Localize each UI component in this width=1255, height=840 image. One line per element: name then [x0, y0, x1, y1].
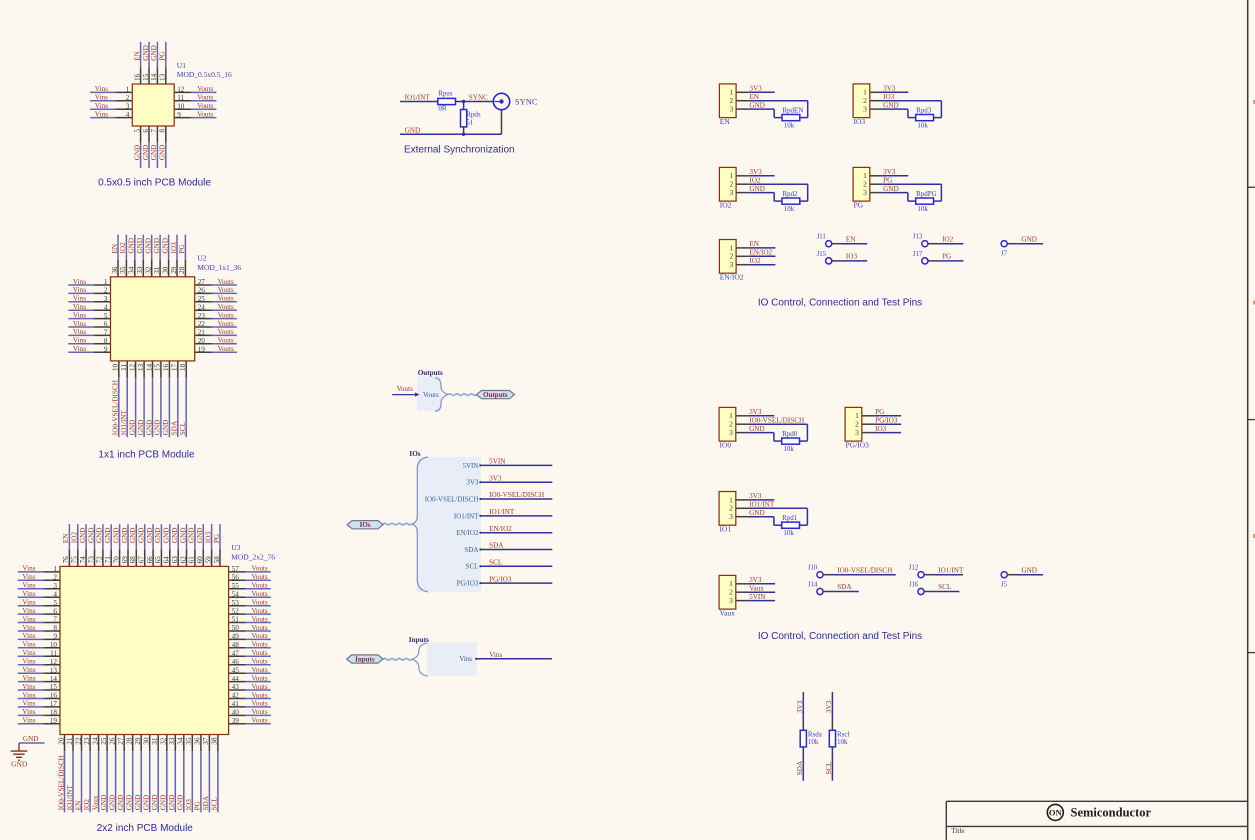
- svg-text:GND: GND: [171, 528, 179, 544]
- svg-text:GND: GND: [749, 101, 765, 109]
- svg-text:EN: EN: [846, 235, 856, 243]
- svg-text:IO0-VSEL/DISCH: IO0-VSEL/DISCH: [749, 417, 804, 425]
- svg-text:3: 3: [126, 102, 130, 110]
- svg-text:8: 8: [104, 337, 108, 345]
- svg-text:28: 28: [126, 737, 134, 745]
- svg-text:14: 14: [145, 363, 153, 371]
- svg-text:SCL: SCL: [466, 563, 479, 571]
- svg-text:10k: 10k: [837, 738, 848, 746]
- svg-text:3V3: 3V3: [883, 85, 896, 93]
- svg-text:32: 32: [160, 737, 168, 745]
- svg-text:8: 8: [159, 129, 167, 133]
- svg-text:PG: PG: [213, 534, 221, 543]
- svg-text:3: 3: [863, 188, 867, 197]
- svg-text:GND: GND: [121, 528, 129, 544]
- svg-text:PG: PG: [883, 177, 892, 185]
- svg-text:10: 10: [177, 102, 185, 110]
- svg-text:19: 19: [198, 345, 206, 353]
- svg-text:27: 27: [117, 737, 125, 745]
- svg-text:GND: GND: [163, 528, 171, 544]
- svg-text:17: 17: [50, 700, 58, 708]
- svg-text:GND: GND: [883, 185, 899, 193]
- svg-text:Vouts: Vouts: [251, 658, 267, 666]
- svg-text:GND: GND: [160, 795, 168, 811]
- svg-text:3V3: 3V3: [825, 700, 833, 713]
- svg-text:Vouts: Vouts: [251, 691, 267, 699]
- svg-text:4: 4: [53, 590, 57, 598]
- svg-text:IO3: IO3: [846, 253, 858, 261]
- svg-text:12: 12: [128, 363, 136, 371]
- svg-text:GND: GND: [883, 101, 899, 109]
- svg-text:32: 32: [145, 266, 153, 274]
- svg-text:30: 30: [161, 266, 169, 274]
- svg-text:Vins: Vins: [95, 94, 108, 102]
- svg-text:Vins: Vins: [22, 632, 35, 640]
- svg-text:U1: U1: [177, 61, 186, 70]
- svg-text:33: 33: [168, 737, 176, 745]
- svg-text:Vins: Vins: [22, 708, 35, 716]
- svg-text:13: 13: [50, 666, 58, 674]
- svg-text:44: 44: [232, 675, 240, 683]
- svg-text:24: 24: [91, 737, 99, 745]
- svg-text:Rpd0: Rpd0: [782, 430, 798, 438]
- svg-text:IO1: IO1: [720, 525, 732, 534]
- svg-text:0R: 0R: [438, 105, 447, 113]
- svg-text:GND: GND: [151, 795, 159, 811]
- svg-text:GND: GND: [162, 420, 170, 436]
- svg-text:65: 65: [154, 556, 162, 564]
- svg-text:Vouts: Vouts: [251, 615, 267, 623]
- svg-text:48: 48: [232, 641, 240, 649]
- svg-text:EN: EN: [749, 93, 759, 101]
- svg-text:3: 3: [729, 512, 733, 521]
- svg-text:31: 31: [151, 737, 159, 745]
- svg-text:40: 40: [232, 709, 240, 717]
- svg-text:36: 36: [194, 737, 202, 745]
- svg-text:Vins: Vins: [22, 683, 35, 691]
- svg-text:IO3: IO3: [854, 117, 866, 126]
- svg-text:U2: U2: [197, 254, 206, 263]
- svg-text:Vins: Vins: [22, 691, 35, 699]
- svg-text:61: 61: [188, 556, 196, 564]
- svg-text:EN/IO2: EN/IO2: [720, 273, 744, 282]
- svg-text:SYNC: SYNC: [515, 96, 538, 106]
- svg-text:IO2: IO2: [942, 235, 954, 243]
- svg-text:Vouts: Vouts: [251, 590, 267, 598]
- svg-text:PG: PG: [178, 244, 186, 253]
- svg-text:IO0-VSEL/DISCH: IO0-VSEL/DISCH: [112, 380, 120, 435]
- svg-text:Vins: Vins: [73, 295, 86, 303]
- svg-text:GND: GND: [104, 528, 112, 544]
- svg-text:3V3: 3V3: [749, 492, 762, 500]
- svg-text:Rpus: Rpus: [438, 90, 453, 98]
- svg-text:62: 62: [179, 556, 187, 564]
- svg-text:45: 45: [232, 666, 240, 674]
- svg-text:Vouts: Vouts: [251, 674, 267, 682]
- svg-text:21: 21: [198, 329, 206, 337]
- svg-text:42: 42: [232, 692, 240, 700]
- svg-text:GND: GND: [142, 145, 150, 161]
- svg-text:Vouts: Vouts: [251, 632, 267, 640]
- svg-text:1: 1: [126, 86, 130, 94]
- svg-text:5VIN: 5VIN: [489, 458, 506, 466]
- svg-text:Vins: Vins: [73, 286, 86, 294]
- svg-text:Vouts: Vouts: [251, 700, 267, 708]
- svg-text:Vouts: Vouts: [218, 345, 234, 353]
- svg-text:14: 14: [150, 73, 158, 81]
- svg-text:16: 16: [133, 73, 141, 81]
- svg-text:Vouts: Vouts: [251, 683, 267, 691]
- svg-text:PG/IO3: PG/IO3: [489, 575, 512, 583]
- svg-text:10k: 10k: [783, 445, 794, 453]
- svg-text:J13: J13: [913, 234, 923, 241]
- svg-text:10: 10: [112, 363, 120, 371]
- svg-text:Vouts: Vouts: [251, 573, 267, 581]
- svg-text:GND: GND: [145, 238, 153, 254]
- svg-text:22: 22: [198, 320, 206, 328]
- svg-text:22: 22: [74, 737, 82, 745]
- svg-text:EN/IO2: EN/IO2: [489, 525, 512, 533]
- svg-text:10k: 10k: [917, 121, 928, 129]
- svg-text:3V3: 3V3: [466, 479, 479, 487]
- svg-text:SDA: SDA: [202, 795, 210, 810]
- svg-text:IO2: IO2: [119, 242, 127, 254]
- svg-text:GND: GND: [108, 795, 116, 811]
- svg-text:GND: GND: [100, 795, 108, 811]
- svg-text:27: 27: [198, 278, 206, 286]
- svg-text:GND: GND: [126, 795, 134, 811]
- svg-text:3V3: 3V3: [796, 700, 804, 713]
- svg-text:IO1/INT: IO1/INT: [454, 512, 479, 520]
- svg-text:5VIN: 5VIN: [749, 593, 766, 601]
- svg-text:SDA: SDA: [489, 542, 504, 550]
- svg-text:2: 2: [104, 287, 108, 295]
- svg-text:IO Control, Connection and Tes: IO Control, Connection and Test Pins: [758, 631, 922, 642]
- svg-text:J7: J7: [1001, 251, 1008, 258]
- svg-text:GND: GND: [159, 145, 167, 161]
- svg-text:2: 2: [126, 94, 130, 102]
- svg-text:Vins: Vins: [22, 700, 35, 708]
- svg-text:IO3: IO3: [170, 242, 178, 254]
- svg-text:75: 75: [71, 556, 79, 564]
- svg-text:12: 12: [50, 658, 58, 666]
- svg-text:PG: PG: [942, 253, 951, 261]
- svg-text:11: 11: [50, 650, 57, 658]
- svg-text:GND: GND: [138, 528, 146, 544]
- svg-text:5: 5: [53, 599, 57, 607]
- svg-text:IO1/INT: IO1/INT: [938, 566, 964, 574]
- svg-text:Vins: Vins: [22, 717, 35, 725]
- svg-text:GND: GND: [153, 238, 161, 254]
- svg-text:56: 56: [232, 574, 240, 582]
- svg-text:IO2: IO2: [71, 532, 79, 544]
- svg-text:47: 47: [232, 650, 240, 658]
- svg-text:GND: GND: [150, 145, 158, 161]
- svg-text:38: 38: [211, 737, 219, 745]
- svg-text:EN: EN: [62, 533, 70, 543]
- svg-text:Vins: Vins: [22, 573, 35, 581]
- svg-text:5VIN: 5VIN: [462, 462, 478, 470]
- svg-text:PG/IO3: PG/IO3: [875, 417, 898, 425]
- svg-text:MOD_0.5x0.5_16: MOD_0.5x0.5_16: [177, 70, 232, 79]
- svg-text:60: 60: [196, 556, 204, 564]
- svg-text:Vouts: Vouts: [251, 607, 267, 615]
- svg-text:GND: GND: [146, 528, 154, 544]
- svg-text:IO1/INT: IO1/INT: [66, 785, 74, 811]
- svg-text:GND: GND: [136, 238, 144, 254]
- svg-text:53: 53: [232, 599, 240, 607]
- svg-text:13: 13: [137, 363, 145, 371]
- svg-text:GND: GND: [96, 528, 104, 544]
- svg-text:IO1/INT: IO1/INT: [749, 501, 775, 509]
- svg-text:49: 49: [232, 633, 240, 641]
- svg-text:Vouts: Vouts: [197, 85, 213, 93]
- svg-text:IO2: IO2: [83, 799, 91, 811]
- svg-text:SCL: SCL: [825, 761, 833, 774]
- svg-text:Vins: Vins: [22, 615, 35, 623]
- svg-text:Vins: Vins: [73, 320, 86, 328]
- svg-text:GND: GND: [143, 795, 151, 811]
- svg-text:Vins: Vins: [489, 651, 502, 659]
- svg-text:Vouts: Vouts: [218, 286, 234, 294]
- svg-text:52: 52: [232, 607, 240, 615]
- svg-text:6: 6: [104, 320, 108, 328]
- svg-text:GND: GND: [168, 795, 176, 811]
- svg-text:Vouts: Vouts: [251, 641, 267, 649]
- svg-text:GND: GND: [749, 185, 765, 193]
- svg-text:IO1/INT: IO1/INT: [489, 508, 515, 516]
- svg-text:PG: PG: [854, 201, 864, 210]
- svg-text:55: 55: [232, 582, 240, 590]
- svg-text:J11: J11: [817, 234, 826, 241]
- svg-text:35: 35: [185, 737, 193, 745]
- svg-text:PG: PG: [875, 408, 884, 416]
- svg-text:EN/IO2: EN/IO2: [749, 249, 772, 257]
- svg-text:Vouts: Vouts: [218, 320, 234, 328]
- svg-text:10: 10: [50, 641, 58, 649]
- svg-text:20: 20: [198, 337, 206, 345]
- svg-text:IO0: IO0: [720, 441, 732, 450]
- svg-text:Vouts: Vouts: [397, 385, 413, 393]
- svg-text:GND: GND: [128, 420, 136, 436]
- svg-text:GND: GND: [196, 528, 204, 544]
- svg-text:3V3: 3V3: [749, 408, 762, 416]
- svg-text:17: 17: [171, 363, 179, 371]
- svg-text:GND: GND: [154, 420, 162, 436]
- svg-text:J12: J12: [909, 565, 919, 572]
- svg-text:ON: ON: [1049, 807, 1063, 817]
- svg-text:33: 33: [136, 266, 144, 274]
- svg-text:67: 67: [138, 556, 146, 564]
- svg-text:GND: GND: [129, 528, 137, 544]
- svg-text:IO3: IO3: [185, 799, 193, 811]
- svg-text:Vins: Vins: [22, 649, 35, 657]
- svg-text:PG/IO3: PG/IO3: [846, 441, 870, 450]
- svg-text:IO1/INT: IO1/INT: [405, 93, 431, 101]
- svg-text:IO0-VSEL/DISCH: IO0-VSEL/DISCH: [837, 566, 892, 574]
- svg-text:3: 3: [729, 428, 733, 437]
- svg-text:4: 4: [104, 303, 108, 311]
- svg-text:57: 57: [232, 565, 240, 573]
- svg-text:3: 3: [729, 596, 733, 605]
- svg-text:SDA: SDA: [837, 583, 852, 591]
- svg-text:J14: J14: [808, 582, 818, 589]
- svg-text:GND: GND: [79, 528, 87, 544]
- svg-text:IO0-VSEL/DISCH: IO0-VSEL/DISCH: [425, 495, 479, 503]
- svg-text:15: 15: [50, 683, 58, 691]
- svg-text:10k: 10k: [808, 738, 819, 746]
- svg-text:Vouts: Vouts: [251, 624, 267, 632]
- svg-text:30: 30: [143, 737, 151, 745]
- svg-text:IO0-VSEL/DISCH: IO0-VSEL/DISCH: [489, 491, 544, 499]
- svg-text:Inputs: Inputs: [355, 656, 375, 664]
- svg-text:43: 43: [232, 683, 240, 691]
- svg-text:GND: GND: [1021, 566, 1037, 574]
- svg-text:Vins: Vins: [22, 666, 35, 674]
- svg-text:Vins: Vins: [73, 303, 86, 311]
- svg-text:Vouts: Vouts: [218, 295, 234, 303]
- svg-text:70: 70: [112, 556, 120, 564]
- svg-text:24: 24: [198, 303, 206, 311]
- svg-text:64: 64: [163, 556, 171, 564]
- svg-text:34: 34: [177, 737, 185, 745]
- svg-text:Vouts: Vouts: [218, 303, 234, 311]
- svg-text:GND: GND: [11, 760, 28, 769]
- svg-text:Vouts: Vouts: [251, 599, 267, 607]
- svg-text:Vouts: Vouts: [251, 717, 267, 725]
- svg-text:Vins: Vins: [22, 658, 35, 666]
- svg-text:3V3: 3V3: [749, 85, 762, 93]
- svg-text:3: 3: [855, 428, 859, 437]
- svg-text:Vins: Vins: [22, 607, 35, 615]
- svg-text:Vouts: Vouts: [197, 102, 213, 110]
- svg-text:12: 12: [177, 86, 185, 94]
- svg-text:16: 16: [162, 363, 170, 371]
- svg-text:External Synchronization: External Synchronization: [404, 144, 515, 155]
- svg-text:GND: GND: [133, 145, 141, 161]
- svg-text:58: 58: [213, 556, 221, 564]
- svg-text:23: 23: [198, 312, 206, 320]
- svg-text:RpdEN: RpdEN: [782, 107, 803, 115]
- svg-text:Outputs: Outputs: [483, 391, 508, 399]
- svg-text:46: 46: [232, 658, 240, 666]
- svg-text:GND: GND: [188, 528, 196, 544]
- svg-text:3V3: 3V3: [883, 168, 896, 176]
- svg-text:EN: EN: [720, 117, 731, 126]
- svg-text:PG/IO3: PG/IO3: [457, 580, 479, 588]
- svg-text:3: 3: [104, 295, 108, 303]
- svg-text:Vins: Vins: [95, 110, 108, 118]
- svg-text:IOs: IOs: [360, 521, 371, 529]
- svg-text:PG: PG: [159, 51, 167, 60]
- svg-text:20: 20: [57, 737, 65, 745]
- svg-text:Vins: Vins: [73, 278, 86, 286]
- svg-text:EN: EN: [111, 243, 119, 253]
- svg-text:Vouts: Vouts: [251, 708, 267, 716]
- svg-text:J10: J10: [808, 565, 818, 572]
- svg-text:Rpds: Rpds: [466, 110, 481, 118]
- svg-text:9: 9: [53, 633, 57, 641]
- svg-text:SCL: SCL: [179, 422, 187, 435]
- svg-text:73: 73: [87, 556, 95, 564]
- svg-text:Vouts: Vouts: [218, 278, 234, 286]
- svg-text:50: 50: [232, 624, 240, 632]
- svg-text:EN: EN: [74, 800, 82, 810]
- svg-text:Vins: Vins: [73, 345, 86, 353]
- svg-text:10k: 10k: [784, 121, 795, 129]
- svg-text:1: 1: [104, 278, 108, 286]
- svg-text:IO0-VSEL/DISCH: IO0-VSEL/DISCH: [57, 755, 65, 810]
- svg-text:3: 3: [729, 260, 733, 269]
- svg-text:25: 25: [100, 737, 108, 745]
- svg-text:68: 68: [129, 556, 137, 564]
- svg-text:IOs: IOs: [409, 450, 420, 458]
- svg-text:9: 9: [177, 111, 181, 119]
- svg-text:29: 29: [134, 737, 142, 745]
- svg-text:IO2: IO2: [720, 201, 732, 210]
- svg-text:IO3: IO3: [875, 425, 887, 433]
- svg-text:Vins: Vins: [459, 655, 472, 663]
- svg-text:SDA: SDA: [464, 546, 478, 554]
- svg-text:SDA: SDA: [796, 760, 804, 775]
- svg-text:37: 37: [202, 737, 210, 745]
- svg-text:16: 16: [50, 692, 58, 700]
- svg-text:EN: EN: [749, 240, 759, 248]
- svg-text:39: 39: [232, 717, 240, 725]
- svg-text:U3: U3: [231, 543, 240, 552]
- svg-text:76: 76: [62, 556, 70, 564]
- svg-text:SCL: SCL: [938, 583, 951, 591]
- svg-text:GND: GND: [87, 528, 95, 544]
- svg-text:Vouts: Vouts: [197, 94, 213, 102]
- svg-text:GND: GND: [128, 238, 136, 254]
- svg-text:IO3: IO3: [204, 532, 212, 544]
- svg-text:MOD_2x2_76: MOD_2x2_76: [231, 553, 275, 562]
- svg-text:5: 5: [104, 312, 108, 320]
- svg-text:PG: PG: [194, 801, 202, 810]
- svg-text:7: 7: [53, 616, 57, 624]
- svg-text:3V3: 3V3: [749, 576, 762, 584]
- svg-text:Vouts: Vouts: [423, 391, 439, 399]
- svg-text:GND: GND: [137, 420, 145, 436]
- svg-text:GND: GND: [134, 795, 142, 811]
- svg-text:SYNC: SYNC: [469, 93, 488, 101]
- svg-text:SCL: SCL: [211, 797, 219, 810]
- svg-text:Vaux: Vaux: [749, 585, 764, 593]
- svg-text:11: 11: [120, 363, 128, 370]
- svg-text:RpdPG: RpdPG: [916, 190, 937, 198]
- svg-text:18: 18: [179, 363, 187, 371]
- svg-text:Vins: Vins: [22, 565, 35, 573]
- svg-text:J17: J17: [913, 251, 923, 258]
- svg-text:9: 9: [104, 345, 108, 353]
- svg-text:7: 7: [150, 129, 158, 133]
- svg-text:69: 69: [121, 556, 129, 564]
- svg-text:63: 63: [171, 556, 179, 564]
- svg-text:74: 74: [79, 556, 87, 564]
- svg-text:3V3: 3V3: [489, 474, 502, 482]
- svg-text:J15: J15: [817, 251, 827, 258]
- svg-text:J16: J16: [909, 582, 919, 589]
- svg-text:GND: GND: [142, 45, 150, 61]
- svg-text:29: 29: [170, 266, 178, 274]
- svg-text:31: 31: [153, 266, 161, 274]
- svg-text:72: 72: [96, 556, 104, 564]
- svg-text:Vouts: Vouts: [251, 649, 267, 657]
- svg-text:GND: GND: [161, 238, 169, 254]
- svg-text:SDA: SDA: [171, 420, 179, 435]
- svg-text:19: 19: [50, 717, 58, 725]
